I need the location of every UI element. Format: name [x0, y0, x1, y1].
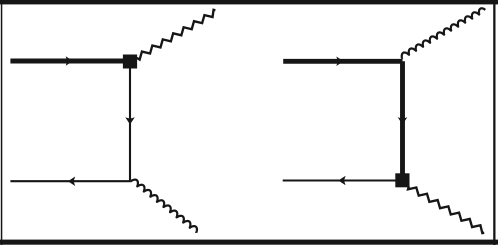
- zigzag boson line Z1 from square S1 up-right: [137, 10, 216, 60]
- wire outgoing electron line e4 (thin, right diagram bottom): [283, 179, 396, 181]
- arrow on e3 pointing right: [336, 57, 343, 67]
- wire internal fermion propagator p2 (thick vertical, right diagram): [400, 61, 405, 175]
- arrow on p1 pointing down: [125, 117, 135, 124]
- wire incoming electron line e3 (thick, right diagram top): [283, 59, 402, 64]
- frame bottom bar: [0, 240, 498, 245]
- effective vertex square S1 (left diagram top): [123, 55, 137, 69]
- wiggly photon line W2 from upper vertex up-right: [402, 8, 486, 59]
- arrow on e2 pointing left: [68, 176, 75, 186]
- zigzag boson line Z2 from square S2 down-right: [408, 186, 484, 233]
- wire internal fermion propagator p1 (thin vertical, left diagram): [129, 63, 131, 181]
- arrow on e1 pointing right: [66, 56, 73, 66]
- arrow on e4 pointing left: [338, 176, 345, 186]
- frame right border: [493, 0, 495, 245]
- arrow on p2 pointing down: [398, 117, 408, 124]
- wire incoming electron line e1 (thick, left diagram top): [10, 59, 130, 64]
- wiggly photon line W1 from lower vertex down-right: [131, 180, 197, 233]
- frame top bar: [0, 0, 498, 4]
- frame left border: [1, 0, 3, 245]
- wire outgoing electron line e2 (thin, left diagram bottom): [10, 180, 130, 182]
- effective vertex square S2 (right diagram bottom): [395, 173, 409, 187]
